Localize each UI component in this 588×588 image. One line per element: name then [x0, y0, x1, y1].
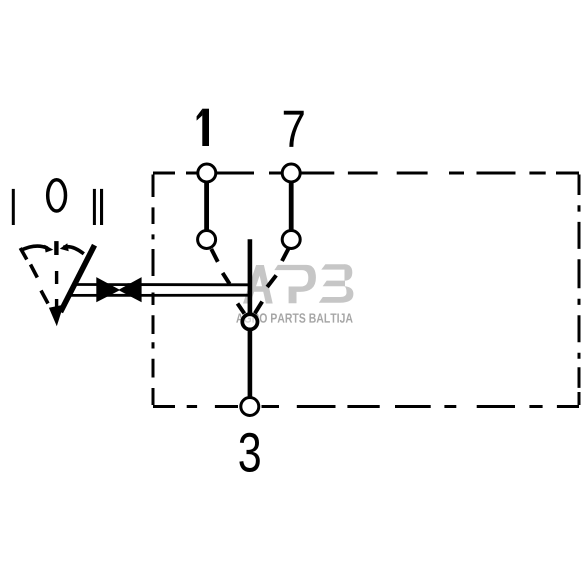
- wire terminal1 to contact1: [204, 182, 209, 231]
- lever arrowhead: [49, 305, 64, 326]
- latching symbol left triangle: [96, 277, 120, 302]
- movable pole lower wire to terminal 3: [248, 330, 253, 399]
- position label I: [12, 189, 15, 225]
- wire terminal7 to contact7: [289, 182, 294, 231]
- linkage rod bottom line: [71, 294, 252, 297]
- pole fork right prong: [255, 302, 262, 314]
- position label 0: [48, 180, 66, 211]
- terminal 7: [282, 164, 300, 182]
- label 3: [239, 433, 259, 472]
- contact 1: [198, 231, 216, 249]
- linkage rod top line: [77, 283, 253, 286]
- dashed enclosure right edge: [578, 205, 581, 388]
- pole pivot circle: [242, 314, 257, 329]
- latching symbol right triangle: [118, 277, 141, 302]
- terminal 1: [198, 164, 216, 182]
- dashed contact path from contact 1: [211, 249, 229, 284]
- dashed contact path from contact 7: [267, 248, 288, 287]
- terminal 3: [241, 398, 259, 416]
- label 1: [197, 109, 209, 146]
- label 7: [284, 111, 304, 147]
- position label II: [93, 189, 96, 225]
- pole fork left prong: [238, 304, 245, 314]
- left arc arrow: [21, 246, 48, 250]
- right arc arrow: [64, 247, 84, 254]
- movable pole upper wire: [248, 239, 253, 314]
- dashed enclosure top edge: [153, 173, 579, 197]
- dashed enclosure left edge: [152, 207, 155, 377]
- neutral tick: [54, 241, 58, 255]
- watermark logo letter P: [274, 265, 316, 303]
- watermark logo letter A: [243, 265, 273, 304]
- position I dashed line: [20, 248, 48, 304]
- watermark text AGRO PARTS BALTIJA: [236, 313, 352, 323]
- dashed enclosure bottom edge: [153, 388, 579, 407]
- contact 7: [282, 231, 300, 249]
- neutral dashed line: [55, 271, 58, 309]
- lever (position II, solid): [61, 245, 95, 312]
- watermark logo letter B (styled 3): [319, 264, 354, 303]
